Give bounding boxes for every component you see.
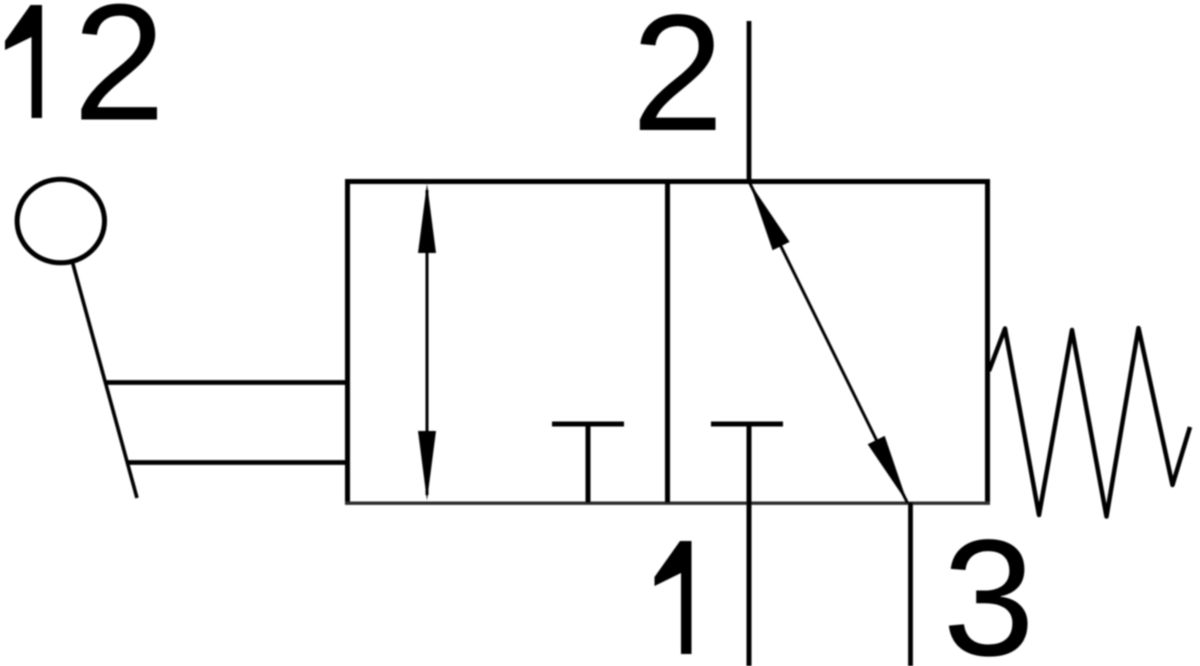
return spring zigzag [989,328,1190,517]
blocked port T symbol (left cell) stem [586,424,591,503]
port 3 line (bottom right) [908,503,913,666]
lever knob circle [17,179,104,263]
port 2 line (top) [747,21,752,182]
double-headed vertical flow arrow (left cell) shaft [426,190,429,495]
blocked port T symbol (right cell) bar [711,422,783,427]
diagonal arrow bottom head [868,436,908,503]
double-headed vertical arrow bottom head [418,431,436,501]
lever arm line [72,262,137,498]
double-headed vertical arrow top head [418,184,436,254]
label 12 (pilot port number) : digit 1 [5,5,42,118]
blocked port T symbol (left cell) bar [552,422,624,427]
lever upper connector wire [105,380,347,385]
port 1 line with T stem (right cell through bottom) [747,424,752,666]
diagonal flow arrow shaft (right cell) [750,183,908,504]
svg-text:2: 2 [73,0,165,156]
svg-text:2: 2 [632,0,724,166]
valve body outline (left, top, right sides) [348,182,988,504]
valve body bottom edge [345,502,990,505]
label 1 (port 1) [655,541,692,654]
diagonal arrow top head [750,183,790,251]
valve position divider [665,182,670,503]
svg-text:3: 3 [943,506,1035,666]
lever lower connector wire [127,460,347,465]
